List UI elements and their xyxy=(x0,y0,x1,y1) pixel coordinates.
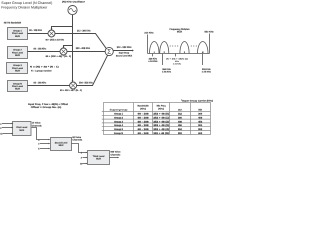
svg-text:Group N: Group N xyxy=(13,82,22,85)
wire box1 to mixer M1 xyxy=(28,33,49,35)
LO vertical wire xyxy=(72,15,74,82)
LO branch to mixer M2 xyxy=(64,46,73,48)
LO arrow into mixer M3 xyxy=(72,80,74,82)
svg-text:336 KHz: 336 KHz xyxy=(149,57,158,60)
wire mixer M3 to summer xyxy=(77,55,108,85)
svg-text:60 + (252 + 48) * (N - 1): 60 + (252 + 48) * (N - 1) xyxy=(46,55,72,58)
wire box C out xyxy=(110,157,118,159)
svg-text:360 - 408 KHz: 360 - 408 KHz xyxy=(76,47,91,50)
wire box B out xyxy=(72,144,83,153)
svg-text:252 + 48 (3): 252 + 48 (3) xyxy=(153,124,169,127)
tick formula xyxy=(175,54,177,57)
svg-text:MUX: MUX xyxy=(19,129,24,132)
svg-text:Bandwidth: Bandwidth xyxy=(138,104,150,107)
channel arch 2 xyxy=(160,41,169,53)
svg-text:552 KHz: 552 KHz xyxy=(205,31,215,34)
svg-text:MUX: MUX xyxy=(59,144,64,147)
svg-text:Σ: Σ xyxy=(107,49,111,56)
svg-text:Group N: Group N xyxy=(114,132,124,135)
svg-text:Second Level: Second Level xyxy=(55,142,68,145)
channel arch 3 xyxy=(180,41,189,53)
svg-text:MUX: MUX xyxy=(15,88,20,91)
svg-text:252 + 48 (1): 252 + 48 (1) xyxy=(153,117,169,120)
svg-text:252 + 48 (2): 252 + 48 (2) xyxy=(153,120,169,123)
svg-text:± 24 KHz: ± 24 KHz xyxy=(202,71,212,74)
box Group 2 First Level MUX xyxy=(8,47,28,59)
spectrum baseline xyxy=(148,53,210,55)
table grid xyxy=(102,103,211,135)
svg-text:Group 4: Group 4 xyxy=(114,124,124,127)
svg-text:Group 3: Group 3 xyxy=(114,120,124,123)
svg-text:First Level: First Level xyxy=(12,51,23,54)
svg-text:(N) KHz Oscillator: (N) KHz Oscillator xyxy=(62,1,85,4)
svg-text:Supergroup: Supergroup xyxy=(110,109,129,112)
svg-text:Channels: Channels xyxy=(32,124,43,127)
mixer M2 xyxy=(60,48,67,55)
box Second Level MUX xyxy=(51,138,72,151)
svg-text:60 - 108 KHz: 60 - 108 KHz xyxy=(34,48,47,51)
svg-text:60 - 108: 60 - 108 xyxy=(138,113,150,116)
svg-text:600 Voice: 600 Voice xyxy=(111,151,122,154)
svg-text:252 + 48 (4): 252 + 48 (4) xyxy=(153,128,169,131)
svg-text:Super Group: Super Group xyxy=(119,52,130,55)
svg-text:⌜Super Group Carrier (KHz): ⌜Super Group Carrier (KHz) xyxy=(181,99,213,102)
tick 336 xyxy=(152,54,154,57)
svg-text:Group 2: Group 2 xyxy=(114,117,124,120)
mixer M3 xyxy=(70,82,77,89)
svg-text:MUX: MUX xyxy=(15,35,20,38)
oscillator OSC1 xyxy=(68,6,77,15)
svg-text:312 - 360 KHz: 312 - 360 KHz xyxy=(77,29,91,32)
mixer M1 xyxy=(48,30,55,37)
svg-text:384 KHz: 384 KHz xyxy=(162,68,171,71)
svg-text:504 - 552 KHz: 504 - 552 KHz xyxy=(79,81,93,84)
svg-text:N - 1 group number: N - 1 group number xyxy=(31,69,52,72)
svg-text:± 24 KHz: ± 24 KHz xyxy=(173,63,181,66)
box Third Level MUX xyxy=(88,151,110,165)
svg-text:First Level: First Level xyxy=(12,85,23,88)
svg-text:Group 2: Group 2 xyxy=(13,49,22,52)
svg-text:± 24 KHz: ± 24 KHz xyxy=(148,60,158,63)
svg-text:MUX: MUX xyxy=(15,54,20,57)
svg-text:60 + (252) = 312 KHz: 60 + (252) = 312 KHz xyxy=(46,38,65,41)
svg-text:12 Voice: 12 Voice xyxy=(32,122,41,125)
wire box2 to mixer M2 xyxy=(28,51,61,53)
svg-text:Frequency Division Multiplexer: Frequency Division Multiplexer xyxy=(1,5,48,9)
svg-text:Group 1: Group 1 xyxy=(13,30,22,33)
svg-text:First Level: First Level xyxy=(16,126,27,129)
svg-text:60 - 108: 60 - 108 xyxy=(138,120,150,123)
svg-text:60 + 252 + 48 * (N - 1): 60 + 252 + 48 * (N - 1) xyxy=(60,89,82,92)
svg-text:312 KHz: 312 KHz xyxy=(144,32,154,35)
svg-text:Mix Freq: Mix Freq xyxy=(157,104,167,107)
svg-text:Offset = Group No. (n): Offset = Group No. (n) xyxy=(31,106,62,109)
svg-text:528 KHz: 528 KHz xyxy=(202,68,211,71)
svg-text:60 - 108: 60 - 108 xyxy=(138,124,150,127)
box Group 3 First Level MUX xyxy=(7,63,28,74)
svg-text:Channels: Channels xyxy=(72,139,83,142)
box First Level MUX xyxy=(13,122,32,136)
wire box A out xyxy=(32,128,41,140)
svg-text:60 - 108: 60 - 108 xyxy=(138,117,150,120)
box Group N First Level MUX xyxy=(8,81,28,92)
svg-text:First Level: First Level xyxy=(12,32,23,35)
svg-text:N = (N) + 48 * (N - 1): N = (N) + 48 * (N - 1) xyxy=(30,66,59,69)
svg-text:60 Voice: 60 Voice xyxy=(72,136,81,139)
svg-text:± 24 KHz: ± 24 KHz xyxy=(162,71,172,74)
svg-text:60 - 108 KHz: 60 - 108 KHz xyxy=(29,29,42,32)
svg-text:(KHz): (KHz) xyxy=(140,107,146,110)
svg-text:MUX: MUX xyxy=(96,158,101,161)
svg-text:312 - 552 KHz: 312 - 552 KHz xyxy=(117,46,133,49)
channel arch N xyxy=(198,42,209,54)
svg-text:Group 5: Group 5 xyxy=(114,128,124,131)
tick 384 xyxy=(162,54,164,66)
svg-text:MUX: MUX xyxy=(177,31,183,34)
wire mixer M2 to summer xyxy=(67,51,105,53)
svg-text:Channels: Channels xyxy=(111,153,122,156)
svg-text:60 - 108: 60 - 108 xyxy=(138,132,150,135)
svg-text:Group 3: Group 3 xyxy=(13,64,22,67)
svg-text:60 - 108: 60 - 108 xyxy=(138,128,150,131)
svg-text:252 + 48 (0): 252 + 48 (0) xyxy=(153,113,169,116)
svg-text:252 + 48 (N): 252 + 48 (N) xyxy=(153,132,169,135)
tick 528 xyxy=(202,54,204,66)
summer S1 xyxy=(105,47,113,55)
wire mixer M1 to summer xyxy=(55,34,106,49)
svg-text:(KHz): (KHz) xyxy=(158,107,164,110)
channel arch 1 xyxy=(150,42,160,54)
table rows xyxy=(114,113,203,135)
svg-text:60 - 108 KHz: 60 - 108 KHz xyxy=(34,82,47,85)
box Group 1 First Level MUX xyxy=(8,28,28,40)
svg-text:KHz: KHz xyxy=(175,60,179,63)
dots between arches xyxy=(191,45,192,46)
svg-text:MUX: MUX xyxy=(15,70,20,73)
svg-text:Second Level MUX: Second Level MUX xyxy=(116,54,133,57)
svg-text:48 KHz Bandwidth: 48 KHz Bandwidth xyxy=(4,22,22,25)
summer output wire xyxy=(113,50,132,52)
spectrum left axis xyxy=(147,35,149,54)
wire box4 to mixer M3 xyxy=(28,85,70,87)
svg-text:Group 1: Group 1 xyxy=(114,113,124,116)
svg-text:Third Level: Third Level xyxy=(93,155,105,158)
svg-text:First Level: First Level xyxy=(12,67,23,70)
LO branch to mixer M1 xyxy=(52,27,73,30)
spectrum right axis xyxy=(209,34,211,54)
dots between arches xyxy=(170,45,171,46)
